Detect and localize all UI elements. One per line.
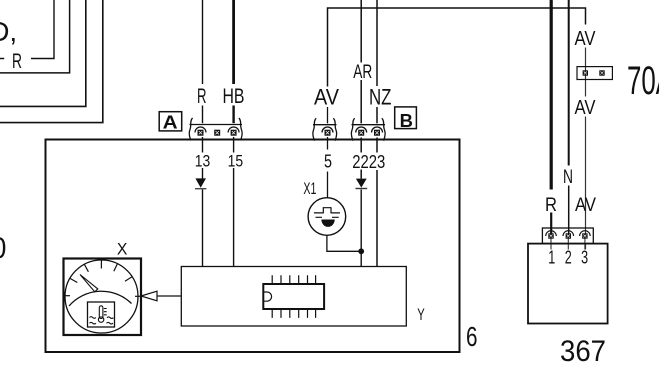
inline connector 70A [577,67,612,80]
wire corner 4 [0,0,103,123]
gauge ticks [63,260,142,297]
gauge dial arc [69,291,132,306]
svg-text:1: 1 [548,248,555,268]
gauge X outer square [64,259,142,336]
IC chip U1 [263,284,324,309]
svg-text:13: 13 [195,152,211,171]
label R (pin 13) [197,84,207,108]
component box 6 [46,140,460,353]
connector 367 pin stubs [551,239,585,250]
svg-text:R: R [197,84,207,108]
connector 367 pin squares [548,233,587,238]
svg-text:B: B [400,111,413,131]
label 2223 [352,151,385,172]
label 70A [627,59,659,103]
wire R thick (right) [550,0,553,234]
lamp X1 icon [314,208,340,218]
label B box [395,107,417,131]
wire R to pin 13 [202,0,204,267]
svg-text:367: 367 [560,335,606,368]
svg-text:AV: AV [575,28,597,50]
wire lamp bottom to junction [327,235,361,251]
wire R top-left with corner [0,0,54,59]
svg-text:AV: AV [575,194,596,216]
label AR [353,61,372,83]
connector B single (pin 5) [313,118,337,141]
arrow from Y to gauge [141,291,181,301]
svg-text:R: R [12,50,22,73]
wire AV horizontal top [328,8,586,87]
gauge needle [80,275,98,292]
label D, (cut off at left edge) [0,16,17,47]
component box 367 [528,244,608,324]
wire corner 3 [0,0,86,106]
label pin 1 [548,248,555,268]
label X1 [303,179,316,198]
svg-text:AR: AR [353,61,372,83]
svg-text:D,: D, [0,16,17,47]
connector A pin squares 13 / mid / 15 [198,130,237,136]
label AV (upper) [575,28,597,50]
svg-text:Y: Y [417,306,425,324]
svg-text:HB: HB [223,84,245,108]
label pin 2 [565,248,572,268]
gauge circle [65,260,138,333]
label Y [417,306,425,324]
label 15 [228,152,244,171]
svg-text:A: A [163,113,178,133]
label AV (pin 5) [314,85,339,110]
box Y [181,267,406,327]
label 6 [466,321,478,352]
svg-text:X: X [117,240,128,259]
label pin 3 [581,248,588,268]
diode D2 on pin 22 [356,179,368,189]
connector 367 arcs [546,231,590,236]
connector B double (pins 22,23) [351,118,385,141]
svg-text:R: R [545,194,557,216]
svg-text:AV: AV [314,85,339,110]
wire AV right vertical [585,48,587,250]
label 5 [324,152,332,172]
svg-text:N: N [563,166,573,188]
svg-text:2223: 2223 [352,151,385,172]
label AV (367 pin 3) [575,194,596,216]
svg-text:3: 3 [581,248,588,268]
label NZ [369,85,392,110]
label HB [223,84,245,108]
svg-text:15: 15 [228,152,244,171]
svg-text:6: 6 [466,321,478,352]
wire AR to pin 22 [360,0,362,179]
diode D1 on pin 13 [195,178,206,188]
label A box [159,112,182,133]
wire pin22 down into Y [360,190,362,267]
junction dot [358,248,364,254]
connector A bracket [189,118,242,141]
label 13 [195,152,211,171]
wire AV to pin 5 [327,107,329,198]
label R (top-left wire) [12,50,22,73]
wire HB to pin 15 [232,0,235,267]
svg-text:X1: X1 [303,179,316,198]
svg-text:70A: 70A [627,59,659,103]
wire corner 2 [0,0,70,73]
connector A arcs [195,127,239,132]
svg-text:NZ: NZ [369,85,392,110]
svg-text:5: 5 [324,152,332,172]
gauge thermometer icon box [88,302,115,327]
label AV (lower) [575,97,597,119]
svg-text:0: 0 [0,232,6,265]
connector strip 367 [542,228,593,244]
svg-text:2: 2 [565,248,572,268]
IC notch [264,292,272,301]
lamp X1 [308,198,346,236]
wire NZ to pin 23 [376,0,378,267]
label X [117,240,128,259]
thermometer [90,306,114,324]
svg-text:AV: AV [575,97,597,119]
wire N (right) [568,0,570,234]
connector B pin squares [325,130,381,136]
label R (367 pin 1) [545,194,557,216]
label 0 (cut off at left edge) [0,232,6,265]
label 367 [560,335,606,368]
label N [563,166,573,188]
IC pins [272,275,315,318]
